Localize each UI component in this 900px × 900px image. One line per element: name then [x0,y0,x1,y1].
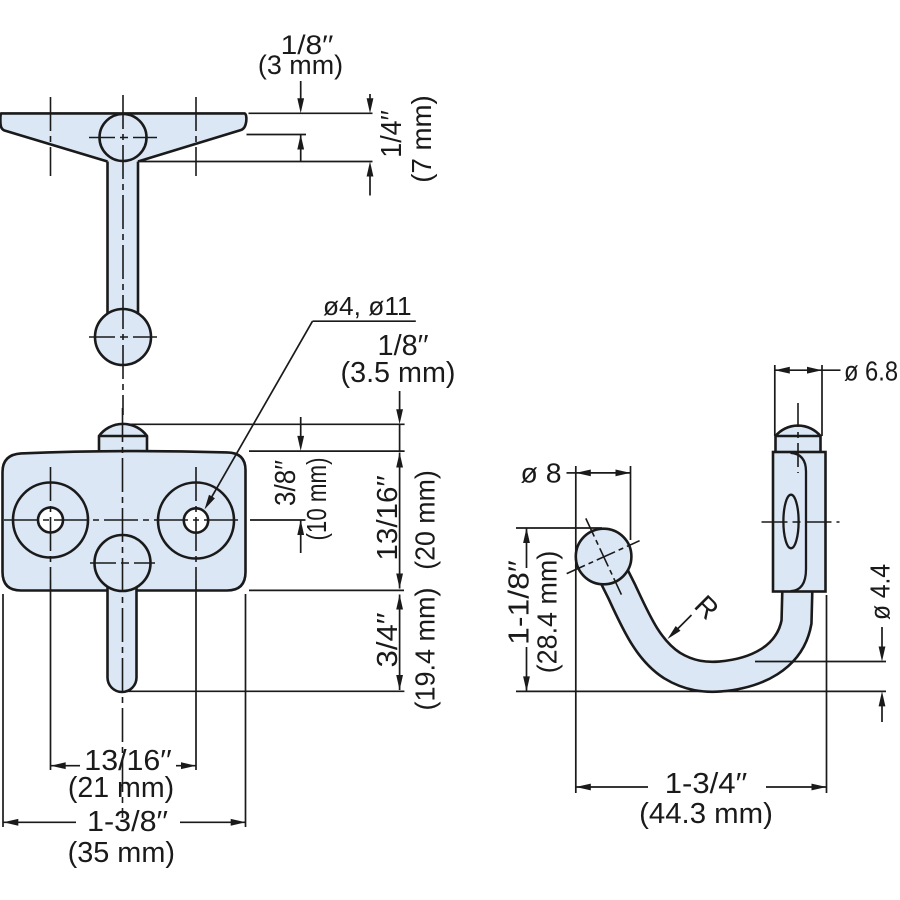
front centerline vertical [122,408,124,818]
side view: knob dome [776,426,821,453]
front view: right hole inner [184,508,208,532]
dim 1-3/8" (35 mm) arrows [3,819,18,826]
side centerline plate horizontal [762,521,840,523]
svg-text:(10 mm): (10 mm) [301,458,332,541]
extension line right hole down [195,580,197,770]
svg-text:3/8′′: 3/8′′ [270,460,302,506]
extension line plate bottom [249,589,404,591]
svg-text:3/4′′: 3/4′′ [372,613,404,668]
svg-text:1-3/8′′: 1-3/8′′ [87,806,168,838]
dim 1/8" (3 mm) arrows [300,81,302,100]
top view: stem [108,162,139,317]
side view: hook arm profile [791,453,807,591]
side view: ball [576,529,632,585]
extension line plate top [249,450,405,452]
svg-text:1-3/4′′: 1-3/4′′ [665,768,748,800]
dim 1-3/4 arrows [576,784,591,791]
top view: ball end [95,309,151,365]
extension line plate left down [2,594,4,827]
front centerline ball [90,562,155,564]
front view: ball [95,535,151,591]
svg-text:(28.4 mm): (28.4 mm) [532,551,563,674]
dim o6.8 extension lines [774,365,776,436]
extension line stem bottom [125,690,404,692]
svg-text:ø 4.4: ø 4.4 [865,564,896,620]
dim o8 extension lines [575,466,577,793]
svg-text:(44.3 mm): (44.3 mm) [639,798,773,830]
extension line plate right down [245,594,247,827]
front view: top knob [99,424,147,453]
dim 1-1/8 arrows [523,528,530,543]
svg-text:13/16′′: 13/16′′ [372,475,404,560]
svg-text:(7 mm): (7 mm) [406,95,437,183]
svg-text:(19.4 mm): (19.4 mm) [410,588,441,711]
front view: left hole outer [13,483,88,558]
top view: plate outline [0,113,246,161]
svg-text:(3.5 mm): (3.5 mm) [341,357,456,389]
bottom tangent line of hook [516,690,886,692]
svg-text:ø 8: ø 8 [521,457,562,488]
extension line hole center [250,519,306,521]
vertical centerline top view [122,95,124,415]
front centerline left hole vertical [50,467,52,580]
horizontal centerline ball [89,336,157,338]
side view: slot [783,495,798,549]
front view: right hole outer [158,483,234,559]
dim 1-3/4 extension right [826,595,828,793]
extension line plate top edge [249,112,373,114]
extension line knob top [128,423,405,425]
front view: mounting plate [3,451,246,590]
side view: hook wire [606,560,798,677]
centerline right hole (top view) [195,97,197,176]
side view: plate [773,452,826,592]
front view: left hole inner [38,508,63,533]
inner tangent line of hook [755,661,886,663]
R leader arrow [672,615,692,635]
side centerline dome vertical [797,403,799,473]
dim 1/4" (7 mm) arrows [369,94,371,101]
svg-text:ø 6.8: ø 6.8 [844,356,898,387]
side ball diagonal centerline 2 [567,541,640,574]
front centerline through holes [4,519,242,521]
front view: stem [108,578,137,692]
dim o6.8 arrows [775,367,790,374]
horizontal centerline head circle [89,137,157,139]
dim 1-1/8 extension line top [516,527,602,529]
dim 3/8" (10 mm) arrows [300,417,302,437]
svg-text:ø4, ø11: ø4, ø11 [323,291,412,321]
top view: hook plate fill [0,113,246,161]
dim o4.4 arrows [881,627,883,648]
extension line left hole down [50,580,52,770]
centerline left hole (top view) [50,97,52,176]
svg-text:(3 mm): (3 mm) [258,50,343,80]
svg-text:(20 mm): (20 mm) [410,470,441,570]
svg-text:(35 mm): (35 mm) [68,837,175,869]
front centerline right hole vertical [195,467,197,580]
top view: ball head circle [100,114,147,161]
svg-text:(21 mm): (21 mm) [68,772,174,804]
edge line 1/8 offset [247,134,307,136]
svg-text:R: R [689,589,725,625]
dim 13/16" (21 mm) arrows [51,762,66,769]
dim o8 arrows [567,472,576,474]
side ball diagonal centerline 1 [586,518,622,594]
dim 1/8" (3.5 mm) arrows + 13/16 + 3/4 dimension line [399,391,401,411]
svg-text:1/4′′: 1/4′′ [376,110,408,158]
extension line plate bottom edge [140,161,373,163]
leader line for hole callout [313,320,416,322]
